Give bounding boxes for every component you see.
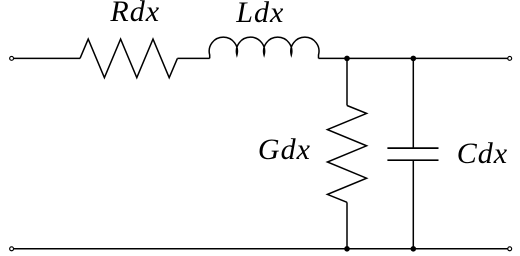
junction dot node A top xyxy=(344,56,350,62)
capacitor C1 Cdx plates xyxy=(387,148,438,160)
junction dot node B bottom xyxy=(411,246,417,252)
svg-text:Ldx: Ldx xyxy=(235,0,284,29)
junction dot node A bottom xyxy=(344,246,350,252)
svg-text:Gdx: Gdx xyxy=(258,133,311,166)
svg-text:Cdx: Cdx xyxy=(457,137,508,170)
wire node A down to G xyxy=(346,58,348,105)
junction dot node B top xyxy=(411,56,417,62)
svg-text:Rdx: Rdx xyxy=(109,0,160,28)
terminal top-left xyxy=(10,56,14,60)
terminal bottom-right xyxy=(508,247,512,251)
wire L to right terminal xyxy=(319,57,508,59)
wire node B down to C xyxy=(412,58,414,148)
wire C to bottom rail xyxy=(412,160,414,249)
wire top-left xyxy=(14,57,80,59)
wire bottom rail xyxy=(14,248,508,250)
resistor R1 Rdx xyxy=(80,39,177,78)
terminal top-right xyxy=(508,56,512,60)
terminal bottom-left xyxy=(10,247,14,251)
inductor L1 Ldx xyxy=(209,37,319,58)
wire G to bottom rail xyxy=(346,202,348,249)
wire R to L xyxy=(177,57,209,59)
resistor R2 Gdx xyxy=(327,106,366,203)
